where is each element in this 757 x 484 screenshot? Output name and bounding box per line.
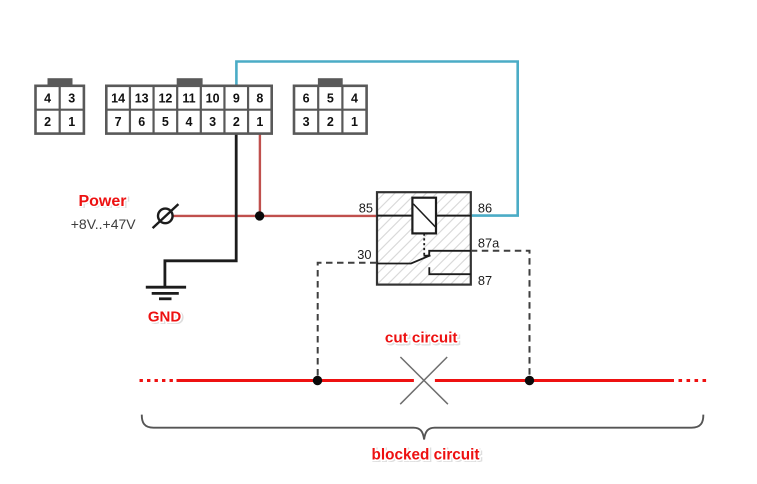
blocked circuit red line (right solid segment) [435,379,674,382]
wire blue: pin 9 to relay pin 86 [236,62,517,216]
label Power [78,193,128,211]
pin label 87 [478,273,492,288]
pin label 30 [357,247,371,262]
svg-text:5: 5 [327,91,334,105]
brace: blocked circuit span [142,415,704,440]
ground [146,287,186,299]
svg-text:Power: Power [78,193,126,210]
svg-text:30: 30 [357,247,371,262]
node: right cut junction dot [525,376,534,385]
blocked circuit red line (left dotted end) [140,379,174,382]
svg-text:13: 13 [135,91,149,105]
svg-text:3: 3 [303,115,310,129]
wire red: pin 1 down to power node [259,134,261,216]
svg-text:2: 2 [233,115,240,129]
blocked circuit red line (right dotted end) [679,379,708,382]
blocked circuit red line (left solid segment) [177,379,414,382]
connector J2 (2x7, pins 1-14) [106,78,271,133]
svg-text:2: 2 [327,115,334,129]
label +8V..+47V [71,216,137,232]
svg-text:12: 12 [158,91,172,105]
svg-text:14: 14 [111,91,125,105]
wire dashed: relay 87a to right cut node [471,251,530,376]
label GND [148,309,183,327]
svg-text:85: 85 [359,201,373,216]
node: power junction dot [255,211,264,220]
label blocked circuit [372,447,481,465]
svg-text:3: 3 [68,91,75,105]
svg-text:10: 10 [206,91,220,105]
power source symbol (circle with slash) [153,204,179,228]
svg-text:blocked circuit: blocked circuit [372,447,480,464]
wire red: power line to relay pin 85 [173,215,378,217]
svg-text:6: 6 [303,91,310,105]
pin label 86 [478,201,492,216]
connector J3 (2x3, pins 1-6) [294,78,367,133]
svg-text:5: 5 [162,115,169,129]
svg-text:4: 4 [351,91,358,105]
wire dashed: relay 30 to left cut node [318,263,377,376]
svg-text:11: 11 [182,91,195,105]
svg-text:+8V..+47V: +8V..+47V [71,216,137,232]
connector J1 (2x2, pins 1-4) [36,78,84,133]
svg-text:6: 6 [138,115,145,129]
svg-text:4: 4 [186,115,193,129]
svg-text:1: 1 [351,115,358,129]
svg-text:86: 86 [478,201,492,216]
svg-text:1: 1 [68,115,75,129]
relay K1 [377,192,471,284]
svg-text:87a: 87a [478,235,500,250]
svg-text:cut circuit: cut circuit [385,330,458,347]
svg-text:9: 9 [233,91,240,105]
node: left cut junction dot [313,376,322,385]
pin label 85 [359,201,373,216]
label cut circuit [385,330,459,348]
cut mark X [400,357,448,404]
svg-text:87: 87 [478,273,492,288]
svg-text:4: 4 [44,91,51,105]
svg-text:3: 3 [209,115,216,129]
svg-text:8: 8 [256,91,263,105]
svg-text:7: 7 [115,115,122,129]
pin label 87a [478,235,500,250]
wire black: pin 2 to ground [165,134,236,287]
svg-text:2: 2 [44,115,51,129]
svg-text:1: 1 [256,115,263,129]
svg-text:GND: GND [148,309,182,326]
